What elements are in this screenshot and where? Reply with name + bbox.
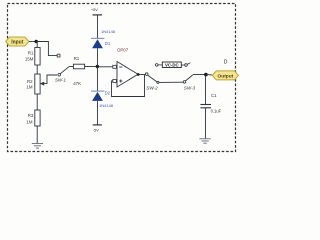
node B junction: [96, 65, 99, 68]
wire R1 to R2: [36, 65, 38, 74]
wire +5V to D1: [97, 15, 99, 38]
ground (left): [32, 144, 43, 149]
wire node B to op-amp inverting input: [97, 66, 112, 68]
wire SW-3 to output node: [193, 74, 206, 76]
wire output node down to C1: [205, 75, 207, 105]
svg-text:-5V: -5V: [93, 127, 99, 132]
svg-text:15M: 15M: [25, 57, 34, 62]
ground (right): [199, 139, 210, 143]
op-amp U1 pin connector (inverting): [113, 65, 117, 68]
-5V supply: [93, 124, 102, 126]
resistor R3: [35, 110, 40, 126]
resistor R1 47K (horizontal): [73, 64, 84, 69]
svg-text:1M: 1M: [26, 120, 32, 125]
diode D2: [91, 90, 114, 108]
svg-text:SW-3: SW-3: [184, 86, 196, 91]
schematic dashed frame: [8, 4, 236, 152]
svg-text:D: D: [224, 60, 228, 66]
wire op-amp output: [138, 74, 145, 76]
node Input tag: [6, 37, 29, 46]
svg-text:Output: Output: [218, 73, 234, 79]
svg-text:VC-DC: VC-DC: [165, 63, 179, 68]
R2 wiper arrow: [41, 75, 57, 84]
wire R3 to ground: [36, 126, 38, 143]
svg-text:0.1uF: 0.1uF: [211, 109, 222, 114]
svg-text:1N4148: 1N4148: [101, 29, 116, 34]
wire node A down to R1: [36, 42, 38, 48]
node output-of-opamp junction: [137, 73, 140, 76]
switch SW-2: [145, 73, 158, 91]
wire node B to D2: [97, 67, 99, 92]
feedback wire loop: [112, 75, 145, 97]
switch SW-3: [183, 75, 195, 91]
svg-text:47K: 47K: [73, 81, 81, 86]
capacitor C1: [200, 93, 221, 113]
svg-text:SW-1: SW-1: [55, 78, 66, 83]
wire input to node A: [29, 41, 36, 43]
svg-text:SW-2: SW-2: [146, 86, 158, 91]
wire node A right and down to SW-1 open terminal: [36, 42, 57, 56]
wire C1 to ground: [205, 108, 207, 139]
switch SW-1: [55, 67, 73, 83]
wire R2 to R3: [36, 94, 38, 110]
svg-text:R1: R1: [28, 51, 34, 56]
svg-text:D1: D1: [105, 41, 111, 46]
wire D2 to -5V: [97, 101, 99, 125]
op-amp U1 OP07: [117, 47, 138, 87]
node Output tag: [212, 71, 238, 80]
node C output junction: [204, 73, 208, 77]
svg-text:C1: C1: [211, 93, 217, 98]
VC-DC converter block: [155, 62, 190, 68]
svg-text:Input: Input: [11, 40, 24, 46]
svg-text:1M: 1M: [26, 85, 32, 90]
diode D1: [91, 29, 116, 48]
svg-text:R3: R3: [28, 113, 34, 118]
wire D1 to node B: [97, 48, 99, 66]
svg-text:D2: D2: [105, 90, 111, 95]
SW-1 open terminal square: [57, 54, 60, 57]
resistor R1: [35, 48, 40, 66]
svg-text:R1: R1: [74, 56, 80, 61]
wire to output tag: [206, 74, 213, 76]
node A junction: [35, 40, 38, 43]
svg-text:1N4148: 1N4148: [99, 103, 114, 108]
svg-text:R2: R2: [27, 79, 33, 84]
wire R1 to node B: [85, 66, 98, 68]
svg-text:OP07: OP07: [117, 47, 129, 52]
svg-text:+5V: +5V: [91, 7, 98, 12]
wire bypass between SW-2 and SW-3: [157, 81, 159, 83]
op-amp U1 pin connector (non-inverting): [113, 80, 117, 83]
potentiometer R2: [35, 74, 40, 94]
